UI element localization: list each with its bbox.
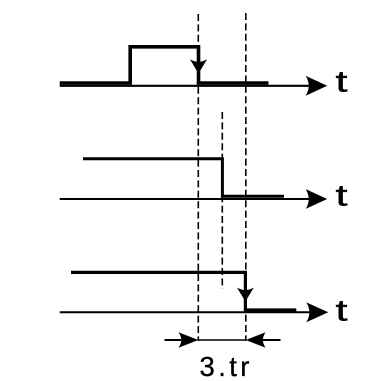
time axis 2 (middle)	[60, 198, 320, 200]
waveform 3 trace (step down)	[71, 272, 296, 310]
dashed guide line D1 (x=198)	[197, 14, 199, 341]
time axis 1 (top)	[60, 85, 320, 87]
axis 1 arrowhead	[306, 76, 328, 96]
dashed guide line D3 (x=246)	[245, 13, 247, 341]
dimension span line	[198, 339, 246, 341]
dimension arrow left tail	[165, 339, 182, 341]
svg-text:3.tr: 3.tr	[200, 351, 253, 381]
dimension arrowhead right (points left at D3)	[246, 332, 266, 347]
dimension arrowhead left (points right at D1)	[179, 332, 199, 347]
waveform 2 trace (step down)	[83, 159, 284, 196]
waveform 1 falling-edge arrowhead	[190, 59, 207, 73]
waveform 1 trace (pulse)	[60, 47, 269, 83]
svg-text:t: t	[336, 66, 348, 99]
svg-text:t: t	[336, 294, 348, 327]
axis 2 arrowhead	[306, 189, 328, 209]
time axis 3 (bottom)	[60, 311, 321, 313]
dimension arrow right tail	[263, 339, 281, 341]
axis 3 arrowhead	[306, 302, 328, 322]
waveform 3 falling-edge arrowhead	[237, 288, 254, 302]
dashed guide line D2 (x=222, short)	[221, 112, 223, 289]
svg-text:t: t	[336, 179, 348, 212]
